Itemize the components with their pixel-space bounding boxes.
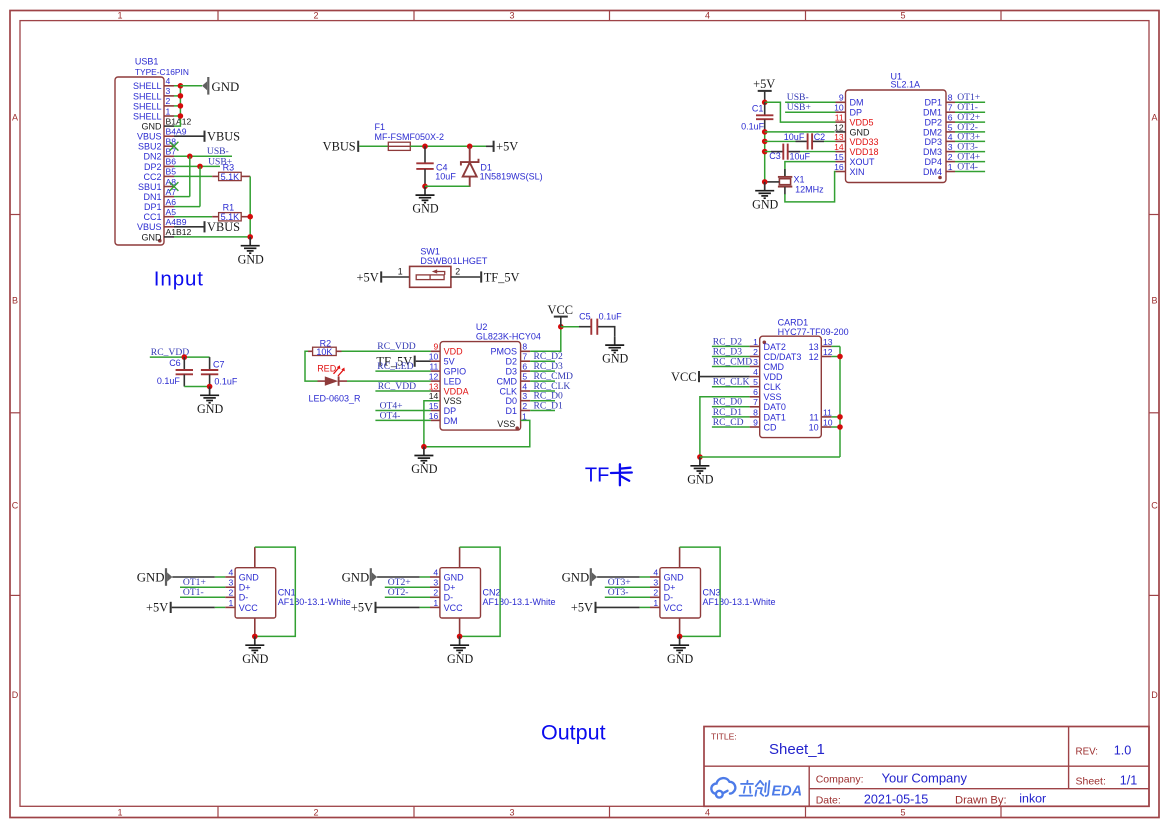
svg-text:DM2: DM2 — [923, 127, 942, 137]
svg-text:3: 3 — [229, 578, 234, 588]
wire net RC_CLK at CARD1 — [712, 386, 750, 388]
wire net RC_D1 at U2 — [530, 410, 555, 412]
wire net RC_CMD at CARD1 — [712, 366, 750, 368]
svg-text:USB+: USB+ — [787, 102, 811, 113]
junction at C4 bottom — [422, 184, 428, 190]
svg-text:CN1: CN1 — [278, 587, 296, 597]
wire net OT2- at U1 — [955, 131, 985, 133]
svg-text:Drawn By:: Drawn By: — [955, 795, 1007, 807]
resistor R3 5.1K — [212, 172, 250, 182]
svg-text:8: 8 — [753, 407, 758, 417]
wire C3 row — [765, 151, 836, 153]
U1 pin 2 (DP4) — [924, 152, 955, 167]
svg-text:PMOS: PMOS — [490, 347, 517, 357]
wire OT1+ to CN1 D+ — [180, 586, 225, 588]
junction CN1 shield / ground — [252, 634, 258, 640]
wire DP2 to DP1 — [199, 166, 201, 206]
junction C7 bottom / GND — [207, 384, 213, 390]
U1 pin 9 (DM) — [836, 93, 864, 108]
CARD1 pin 8 (DAT1) — [750, 407, 786, 422]
svg-text:B7: B7 — [166, 147, 177, 157]
junction RC_VDD / C6 — [182, 354, 188, 360]
svg-text:10: 10 — [823, 417, 833, 427]
svg-text:DP2: DP2 — [924, 118, 942, 128]
svg-text:3: 3 — [948, 142, 953, 152]
U1 pin 15 (XOUT) — [834, 152, 875, 167]
svg-text:10: 10 — [809, 422, 819, 432]
wire DN2 (USB-) — [174, 155, 232, 157]
svg-text:XIN: XIN — [850, 167, 865, 177]
wire SW1 pin 2 to TF_5V — [451, 276, 480, 278]
svg-text:2: 2 — [653, 588, 658, 598]
svg-text:3: 3 — [653, 578, 658, 588]
svg-text:D1: D1 — [505, 406, 517, 416]
svg-text:D-: D- — [444, 593, 454, 603]
wire to GND flag at USB1 pin 4 — [180, 85, 202, 87]
svg-text:AF180-13.1-White: AF180-13.1-White — [483, 597, 556, 607]
svg-text:DAT2: DAT2 — [764, 342, 786, 352]
svg-text:C6: C6 — [169, 358, 181, 368]
net port TF_5V at SW1 — [481, 270, 519, 284]
net port +5V at CN2 — [351, 601, 376, 615]
svg-text:GND: GND — [752, 197, 778, 211]
wire SHELL/GND bus at USB1 — [174, 86, 180, 126]
svg-text:SL2.1A: SL2.1A — [891, 80, 921, 90]
wire OT1- to CN1 D- — [180, 596, 225, 598]
wire VBUS A4B9 to port — [174, 226, 205, 228]
svg-text:B6: B6 — [166, 157, 177, 167]
wire net OT3+ at U1 — [955, 140, 985, 142]
net port +5V at U1 — [753, 77, 775, 91]
wire +5V to CN2 VCC — [377, 606, 420, 608]
IC U2 body — [440, 342, 520, 431]
CARD1 pin 2 (CD/DAT3) — [750, 347, 802, 362]
svg-text:VDD33: VDD33 — [850, 137, 879, 147]
GND power flag at CN1 — [165, 568, 172, 586]
ground symbol at CN3 — [667, 636, 693, 665]
svg-text:A5: A5 — [166, 207, 177, 217]
diode D1 (schottky) — [461, 146, 479, 187]
svg-text:D+: D+ — [444, 583, 456, 593]
wire CN2 shield loop — [460, 547, 501, 636]
svg-text:D2: D2 — [505, 357, 517, 367]
U2 pin 14 (VSS) — [429, 391, 462, 406]
U2 pin 12 (LED) — [429, 372, 462, 387]
svg-text:C1: C1 — [752, 104, 764, 114]
wire C6 top lead — [183, 357, 185, 370]
svg-text:1: 1 — [753, 337, 758, 347]
wire GND A1B12 to vertical — [174, 236, 250, 238]
svg-text:A7: A7 — [166, 187, 177, 197]
svg-text:DAT0: DAT0 — [764, 402, 786, 412]
wire R2 to U2 VDD (RC_VDD) — [342, 350, 431, 352]
USB1 pin A5 (CC1) — [143, 207, 176, 222]
EasyEDA logo LI CHUANG glyphs — [740, 781, 770, 796]
junction R1/R3 — [247, 214, 253, 220]
wire CC1 to R1 — [174, 216, 212, 218]
junction at C4 top — [422, 144, 428, 150]
svg-text:0.1uF: 0.1uF — [214, 377, 238, 387]
USB1 pin A6 (DP1) — [144, 197, 176, 212]
wire D1 bottom to C4 bottom — [425, 185, 470, 187]
ground symbol at C5 — [602, 336, 628, 365]
svg-text:9: 9 — [753, 417, 758, 427]
connector CN1 body — [235, 568, 276, 618]
wire OT3- to CN3 D- — [605, 596, 650, 598]
frame column numbers top — [117, 11, 905, 21]
svg-text:USB1: USB1 — [135, 57, 159, 67]
svg-text:1.0: 1.0 — [1114, 744, 1132, 758]
svg-text:D-: D- — [664, 593, 674, 603]
wire CARD1 pin 11 to shield bus — [831, 416, 840, 418]
wire net RC_D2 at U2 — [530, 360, 555, 362]
U1 pin 16 (XIN) — [834, 162, 864, 177]
svg-text:1: 1 — [433, 598, 438, 608]
svg-text:2: 2 — [433, 588, 438, 598]
frame column numbers bottom — [117, 807, 905, 817]
USB1 pin B1A12 (GND) — [142, 116, 192, 131]
title block border — [704, 727, 1149, 807]
U1 pin 1 (DM4) — [923, 162, 955, 177]
ground symbol at CN2 — [447, 636, 473, 665]
wire DP2 (USB+) — [174, 165, 220, 167]
U1 pin 4 (DP3) — [924, 132, 955, 147]
IC U1 body — [846, 90, 947, 183]
ground symbol at CN1 — [242, 636, 268, 665]
U1 pin 8 (DP1) — [924, 93, 955, 108]
USB1 pin A4B9 (VBUS) — [137, 217, 187, 232]
svg-text:12: 12 — [429, 372, 439, 382]
junction VCC / C5 — [558, 324, 564, 330]
switch SW1 body — [410, 266, 451, 287]
frame row ticks left — [10, 215, 20, 596]
svg-text:1: 1 — [229, 598, 234, 608]
wire net RC_D0 at CARD1 — [712, 406, 750, 408]
net port VBUS at USB1 — [205, 130, 241, 144]
fuse F1 — [388, 142, 410, 150]
CARD1 pin 12 (shield) — [809, 347, 833, 362]
U2 pin 5 (CMD) — [497, 372, 531, 387]
CARD1 pin 3 (CMD) — [750, 357, 785, 372]
wire CC2 to R3 — [174, 175, 212, 177]
wire X1 case to GND rail — [765, 181, 780, 183]
wire net RC_CLK at U2 — [530, 390, 555, 392]
svg-text:15: 15 — [834, 152, 844, 162]
svg-text:VDD: VDD — [444, 347, 464, 357]
svg-text:GND: GND — [667, 652, 693, 666]
svg-text:VBUS: VBUS — [207, 220, 240, 234]
svg-text:TF: TF — [585, 464, 609, 486]
CN2 pin 3 (D+) — [430, 578, 455, 593]
svg-text:DSWB01LHGET: DSWB01LHGET — [420, 256, 488, 266]
svg-text:RED: RED — [317, 363, 337, 373]
svg-text:5: 5 — [948, 122, 953, 132]
wire OT2+ to CN2 D+ — [385, 586, 430, 588]
svg-text:DP1: DP1 — [924, 98, 942, 108]
junction GND rail / C2 — [762, 139, 768, 145]
svg-text:GND: GND — [137, 571, 165, 585]
svg-text:RC_VDD: RC_VDD — [378, 381, 416, 392]
svg-text:VBUS: VBUS — [137, 132, 162, 142]
svg-text:D+: D+ — [664, 583, 676, 593]
wire +5V stem at U1 — [764, 91, 766, 102]
frame row ticks right — [1149, 215, 1159, 596]
U1 pin 11 (VDD5) — [835, 113, 874, 128]
svg-text:GND: GND — [242, 652, 268, 666]
wire SHELL pin3 stub — [174, 95, 180, 97]
CARD1 pin 1 (DAT2) — [750, 337, 786, 352]
svg-text:13: 13 — [429, 381, 439, 391]
wire RC_VDD at C6/C7 — [150, 356, 210, 358]
wire net OT4+ at U1 — [955, 161, 985, 163]
svg-text:D3: D3 — [505, 367, 517, 377]
svg-text:VCC: VCC — [664, 603, 684, 613]
wire RC_LED to U2 GPIO — [375, 370, 431, 372]
wire CARD1 pin 13 to shield bus — [831, 345, 840, 347]
svg-text:11: 11 — [429, 362, 438, 372]
svg-text:+5V: +5V — [146, 601, 168, 615]
svg-text:CN3: CN3 — [703, 587, 721, 597]
svg-text:DM4: DM4 — [923, 167, 942, 177]
svg-text:RC_VDD: RC_VDD — [377, 341, 415, 352]
capacitor C7 — [201, 370, 218, 374]
svg-text:VCC: VCC — [444, 603, 464, 613]
wire TF_5V to U2 5V pin — [416, 360, 431, 362]
svg-text:GND: GND — [412, 202, 438, 216]
svg-text:D: D — [12, 690, 19, 700]
svg-text:B5: B5 — [166, 167, 177, 177]
svg-text:7: 7 — [753, 397, 758, 407]
CN1 pin 1 (VCC) — [225, 598, 258, 613]
wire C5 right lead to ground — [598, 327, 615, 337]
USB1 pin B7 (DN2) — [143, 147, 176, 162]
svg-text:HYC77-TF09-200: HYC77-TF09-200 — [778, 327, 849, 337]
svg-text:5.1K: 5.1K — [221, 172, 240, 182]
connector CN3 body — [660, 568, 701, 618]
svg-text:3: 3 — [509, 807, 514, 817]
net port TF_5V at U2 — [376, 355, 414, 369]
svg-text:4: 4 — [166, 76, 171, 86]
svg-text:Company:: Company: — [816, 774, 864, 786]
svg-text:4: 4 — [705, 807, 710, 817]
svg-text:2: 2 — [313, 11, 318, 21]
wire net RC_CMD at U2 — [530, 380, 555, 382]
wire C6 bottom lead — [183, 375, 185, 387]
svg-text:A: A — [1151, 112, 1157, 122]
svg-text:C: C — [1151, 500, 1158, 510]
svg-text:VDDA: VDDA — [444, 386, 469, 396]
connector USB1 body — [115, 77, 164, 245]
wire DP1 stub to vertical — [174, 206, 200, 208]
ground symbol at U2 — [411, 447, 437, 476]
ground symbol at USB1 — [238, 237, 264, 266]
CN2 pin 4 (GND) — [430, 567, 464, 582]
CN3 pin 4 (GND) — [650, 567, 684, 582]
svg-text:VDD18: VDD18 — [850, 147, 879, 157]
svg-text:CMD: CMD — [497, 377, 518, 387]
svg-text:12: 12 — [823, 347, 833, 357]
U2 pin 15 (DP) — [429, 401, 456, 416]
svg-text:DP2: DP2 — [144, 162, 162, 172]
wire +5V to CN1 VCC (green) — [215, 606, 225, 608]
svg-text:GND: GND — [411, 462, 437, 476]
svg-text:MF-FSMF050X-2: MF-FSMF050X-2 — [375, 132, 445, 142]
junction CN2 shield / ground — [457, 634, 463, 640]
svg-text:12: 12 — [809, 352, 819, 362]
svg-text:VDD: VDD — [764, 372, 784, 382]
svg-text:8: 8 — [522, 342, 527, 352]
svg-text:GND: GND — [239, 572, 259, 582]
svg-text:DP: DP — [850, 108, 863, 118]
svg-text:SHELL: SHELL — [133, 81, 162, 91]
frame row letters left — [12, 112, 19, 700]
svg-text:2: 2 — [229, 588, 234, 598]
svg-text:Input: Input — [154, 267, 204, 290]
svg-text:16: 16 — [429, 411, 439, 421]
svg-text:3: 3 — [166, 86, 171, 96]
svg-text:CARD1: CARD1 — [778, 317, 809, 327]
wire net RC_D0 at U2 — [530, 400, 555, 402]
svg-text:C7: C7 — [213, 360, 225, 370]
CARD1 pin 9 (CD) — [750, 417, 777, 432]
junction CARD1 ground — [697, 454, 703, 460]
svg-text:XOUT: XOUT — [850, 157, 876, 167]
svg-text:REV:: REV: — [1076, 747, 1099, 758]
svg-text:3: 3 — [433, 578, 438, 588]
U2 pin 6 (D3) — [505, 362, 530, 377]
wire GND to CN2 pin 4 (green) — [420, 576, 430, 578]
junction +5V / C1 — [762, 100, 768, 106]
svg-text:CD: CD — [764, 422, 777, 432]
svg-text:4: 4 — [948, 132, 953, 142]
svg-text:SHELL: SHELL — [133, 91, 162, 101]
GND power flag at CN3 — [590, 568, 597, 586]
EasyEDA logo cloud — [711, 778, 735, 798]
wire VCC to CARD1 VDD — [700, 376, 750, 378]
junction GND A1B12 — [247, 234, 253, 240]
svg-text:DP3: DP3 — [924, 137, 942, 147]
ground symbol at CARD1 — [687, 457, 713, 486]
svg-text:TYPE-C16PIN: TYPE-C16PIN — [135, 67, 189, 77]
wire CARD1 VSS to ground — [700, 397, 750, 457]
svg-text:CLK: CLK — [764, 382, 782, 392]
wire CARD1 pin 10 to shield bus — [831, 426, 840, 428]
svg-text:D: D — [1151, 690, 1158, 700]
wire net OT1- at U1 — [955, 111, 985, 113]
U1 pin 5 (DM2) — [923, 122, 955, 137]
svg-text:SBU1: SBU1 — [138, 182, 162, 192]
svg-text:Date:: Date: — [816, 795, 841, 807]
CN3 pin 3 (D+) — [650, 578, 675, 593]
junction shield bus pin 11 — [837, 414, 843, 420]
U2 pin 11 (GPIO) — [429, 362, 466, 377]
svg-text:C2: C2 — [814, 132, 826, 142]
wire R3 to R1 to GND vertical — [249, 176, 251, 237]
svg-text:VSS: VSS — [764, 392, 782, 402]
svg-text:10: 10 — [834, 103, 844, 113]
wire VBUS B4A9 to port — [174, 135, 205, 137]
CN3 top shield pin — [679, 547, 681, 568]
svg-text:1: 1 — [653, 598, 658, 608]
svg-text:OT2-: OT2- — [388, 587, 409, 598]
svg-text:VCC: VCC — [239, 603, 259, 613]
wire GND to CN1 pin 4 (green) — [215, 576, 225, 578]
CARD1 pin 10 (shield) — [809, 417, 833, 432]
junction at D1 top — [467, 144, 473, 150]
svg-text:GND: GND — [238, 252, 264, 266]
svg-text:LED-0603_R: LED-0603_R — [309, 393, 362, 403]
svg-text:7: 7 — [522, 352, 527, 362]
wire net RC_D3 at CARD1 — [712, 356, 750, 358]
svg-text:1: 1 — [398, 267, 403, 277]
svg-text:11: 11 — [835, 113, 844, 123]
wire XOUT to X1 top — [785, 162, 836, 177]
svg-text:OT4-: OT4- — [957, 161, 978, 172]
wire net RC_D2 at CARD1 — [712, 345, 750, 347]
capacitor C4 — [416, 163, 433, 169]
svg-text:7: 7 — [948, 103, 953, 113]
wire +5V to CN3 VCC (green) — [640, 606, 650, 608]
wire RC_VDD to U2 VDDA — [375, 390, 431, 392]
svg-text:GPIO: GPIO — [444, 367, 467, 377]
svg-text:1N5819WS(SL): 1N5819WS(SL) — [480, 172, 543, 182]
svg-text:10uF: 10uF — [435, 172, 456, 182]
junction CN3 shield / ground — [677, 634, 683, 640]
U2 pin 13 (VDDA) — [429, 381, 469, 396]
junction GND rail / pin12 wire — [762, 129, 768, 135]
svg-text:CMD: CMD — [764, 362, 785, 372]
wire X1 bottom lead (black) — [784, 187, 786, 195]
U1 pin 13 (VDD33) — [834, 132, 878, 147]
CARD1 pin 7 (DAT0) — [750, 397, 786, 412]
CARD1 pin 5 (CLK) — [750, 377, 781, 392]
wire net RC_CD at CARD1 — [712, 426, 750, 428]
frame column ticks top — [218, 11, 1001, 21]
wire OT4- to U2 DM — [375, 419, 431, 421]
USB1 pin B4A9 (VBUS) — [137, 127, 187, 142]
svg-text:9: 9 — [839, 93, 844, 103]
svg-text:10uF: 10uF — [784, 132, 805, 142]
svg-text:AF180-13.1-White: AF180-13.1-White — [278, 597, 351, 607]
svg-text:4: 4 — [705, 11, 710, 21]
IC U1 pin-1 marker dot — [938, 176, 942, 180]
ground symbol at C4 — [412, 186, 438, 215]
svg-text:VCC: VCC — [548, 303, 573, 317]
junction SHELL bus — [178, 93, 184, 99]
svg-text:2: 2 — [948, 152, 953, 162]
svg-text:15: 15 — [429, 401, 439, 411]
CN2 bottom shield pin — [459, 618, 461, 636]
svg-text:11: 11 — [809, 412, 818, 422]
wire GND rail at U1 — [764, 132, 766, 182]
U2 pin 8 (PMOS) — [490, 342, 530, 357]
wire GND to CN3 pin 4 (green) — [640, 576, 650, 578]
svg-text:RC_LED: RC_LED — [377, 361, 413, 372]
svg-text:GND: GND — [562, 571, 590, 585]
svg-text:4: 4 — [753, 367, 758, 377]
wire CARD1 pin 12 to shield bus — [831, 356, 840, 358]
wire LED cathode to U2 LED pin — [347, 380, 431, 382]
CN2 pin 2 (D-) — [430, 588, 453, 603]
svg-text:+5V: +5V — [571, 601, 593, 615]
svg-text:D0: D0 — [505, 396, 517, 406]
svg-text:+5V: +5V — [753, 77, 775, 91]
svg-text:VCC: VCC — [671, 370, 696, 384]
svg-text:DP4: DP4 — [924, 157, 942, 167]
wire CARD1 ground bus bottom — [700, 456, 840, 458]
svg-text:11: 11 — [823, 407, 832, 417]
ground symbol at U1 — [752, 182, 778, 211]
